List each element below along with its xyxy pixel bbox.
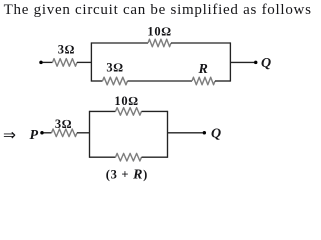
wire right junction to Q terminal (circuit 2) — [168, 132, 203, 134]
svg-text:Q: Q — [211, 127, 221, 142]
resistor 10ohm (circuit 1 top branch) — [148, 39, 171, 47]
svg-text:Q: Q — [261, 56, 271, 71]
node Q terminal (circuit 1) — [254, 61, 258, 65]
node P terminal (circuit 2) — [40, 131, 44, 135]
svg-text:⇒: ⇒ — [3, 127, 16, 144]
svg-text:10Ω: 10Ω — [147, 25, 171, 39]
wire input terminal to 3ohm resistor (circuit 1) — [43, 61, 53, 63]
wire top branch left segment (circuit 1) — [91, 42, 148, 44]
resistor R (circuit 1 bottom branch) — [192, 77, 215, 85]
wire 3ohm resistor to left junction (circuit 1) — [77, 61, 91, 63]
resistor 3ohm series (circuit 2) — [52, 129, 78, 137]
wire bottom branch right segment (circuit 1) — [215, 80, 230, 82]
wire bottom branch middle segment (circuit 1) — [128, 80, 193, 82]
wire P terminal to 3ohm resistor (circuit 2) — [44, 132, 52, 134]
wire 3ohm resistor to left junction (circuit 2) — [77, 132, 90, 134]
node left junction vertical (circuit 2) — [89, 111, 91, 158]
svg-text:The given circuit can be simpl: The given circuit can be simplified as f… — [4, 2, 312, 18]
wire bottom branch left segment (circuit 1) — [91, 80, 102, 82]
wire bottom branch left segment (circuit 2) — [90, 156, 116, 158]
node input terminal (circuit 1) — [39, 61, 43, 65]
svg-text:R: R — [198, 62, 208, 77]
resistor 3plusR (circuit 2 bottom branch) — [116, 153, 142, 161]
resistor 3ohm series (circuit 1) — [53, 59, 78, 67]
node left junction vertical (circuit 1) — [90, 42, 92, 81]
svg-text:3Ω: 3Ω — [58, 43, 75, 57]
svg-text:10Ω: 10Ω — [114, 94, 138, 108]
node right junction vertical (circuit 2) — [167, 111, 169, 158]
node right junction vertical (circuit 1) — [229, 42, 231, 81]
resistor 3ohm (circuit 1 bottom branch) — [103, 77, 128, 85]
svg-text:3Ω: 3Ω — [55, 117, 72, 131]
node Q terminal (circuit 2) — [203, 131, 207, 135]
wire bottom branch right segment (circuit 2) — [142, 156, 168, 158]
wire right junction to Q terminal (circuit 1) — [230, 61, 254, 63]
resistor 10ohm (circuit 2 top branch) — [116, 108, 142, 116]
svg-text:P: P — [30, 128, 39, 143]
wire top branch left segment (circuit 2) — [90, 110, 116, 112]
wire top branch right segment (circuit 1) — [171, 42, 230, 44]
svg-text:(3 + R): (3 + R) — [106, 167, 148, 182]
wire top branch right segment (circuit 2) — [142, 110, 168, 112]
svg-text:3Ω: 3Ω — [106, 61, 123, 75]
